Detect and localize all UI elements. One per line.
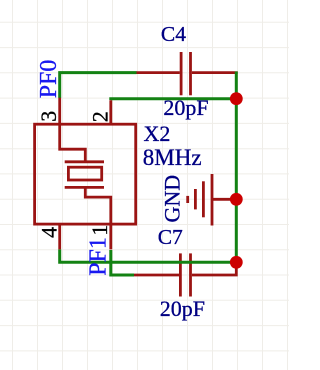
wire PF1 net: pin1 down-right xyxy=(111,250,134,275)
junction top xyxy=(230,92,243,105)
ground xyxy=(188,174,237,226)
pin 2 stub xyxy=(109,100,112,124)
junction bottom xyxy=(230,256,243,269)
svg-text:20pF: 20pF xyxy=(163,95,208,120)
wire vertical right bus xyxy=(235,72,238,263)
svg-text:C7: C7 xyxy=(158,225,183,249)
svg-text:X2: X2 xyxy=(144,121,171,146)
svg-text:8MHz: 8MHz xyxy=(143,145,202,170)
svg-text:4: 4 xyxy=(36,227,61,238)
svg-text:2: 2 xyxy=(87,111,112,122)
wire pin4 to junction xyxy=(60,250,237,263)
svg-text:PF1: PF1 xyxy=(85,237,111,276)
svg-text:PF0: PF0 xyxy=(36,60,62,99)
wire pin2 to junction xyxy=(111,99,237,100)
svg-text:1: 1 xyxy=(87,225,112,236)
crystal internal symbol xyxy=(60,124,111,224)
wire PF0 net: pin3 to C4 xyxy=(60,73,137,98)
pin 1 stub xyxy=(109,224,112,249)
capacitor C7 xyxy=(134,253,236,296)
pin 4 stub xyxy=(58,224,61,249)
junction middle xyxy=(230,193,243,206)
svg-text:C4: C4 xyxy=(161,22,186,46)
svg-text:20pF: 20pF xyxy=(160,296,205,321)
svg-text:GND: GND xyxy=(159,175,184,223)
svg-text:3: 3 xyxy=(36,111,61,122)
pin 3 stub xyxy=(58,98,61,125)
crystal X2 box xyxy=(35,124,136,224)
capacitor C4 xyxy=(136,52,238,95)
